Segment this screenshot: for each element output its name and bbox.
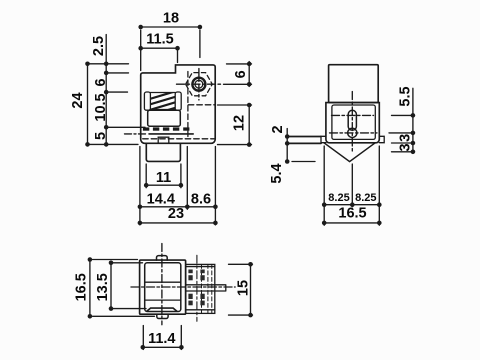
svg-text:3: 3 (398, 143, 414, 151)
bottom tab (157, 314, 168, 318)
hole crosshair horizontal (177, 83, 221, 85)
horizontal centerline circle (330, 132, 378, 134)
center band (186, 285, 226, 291)
svg-text:2.5: 2.5 (91, 36, 107, 56)
left chain line (105, 35, 107, 145)
dim 24 line (87, 64, 89, 145)
bottom view outer rect (140, 260, 186, 314)
bottom trapezoid (147, 308, 177, 311)
vertical centerline (161, 244, 163, 325)
svg-text:24: 24 (70, 92, 86, 108)
right block top/bottom double lines (186, 267, 215, 310)
dim 14.4 / 8.6 (140, 147, 216, 225)
right block outer (186, 264, 215, 313)
svg-text:6: 6 (233, 70, 249, 78)
dim 11 bottom (146, 164, 181, 188)
hidden line vertical (187, 72, 189, 139)
slot (348, 110, 356, 130)
solid line under terminals (149, 133, 193, 135)
svg-text:5: 5 (93, 132, 109, 140)
hidden line bottom (143, 138, 214, 140)
coil right flange (175, 92, 181, 110)
svg-text:23: 23 (168, 206, 184, 222)
svg-text:15: 15 (235, 280, 251, 296)
dim 23 (140, 222, 216, 224)
top tab (157, 256, 168, 261)
svg-text:12: 12 (232, 115, 248, 131)
chain extension lines (90, 64, 146, 145)
centerline left stub (125, 133, 149, 135)
front view body outline (141, 65, 216, 143)
svg-text:11.4: 11.4 (148, 331, 175, 347)
coil left flange (144, 92, 150, 110)
svg-text:16.5: 16.5 (338, 206, 366, 222)
svg-text:11: 11 (156, 170, 171, 186)
svg-text:2: 2 (270, 125, 286, 133)
bottom protrusion (146, 144, 180, 162)
dim right column 5.5 / 3 / 3 (389, 88, 415, 152)
svg-text:8.6: 8.6 (191, 192, 211, 208)
svg-text:3: 3 (398, 134, 414, 142)
dim 13.5 (111, 263, 146, 309)
dim 2 / 5.4 left (287, 129, 315, 162)
inner line 2 (145, 299, 181, 301)
side view upper body (329, 65, 379, 103)
dim 18 (141, 27, 200, 71)
svg-text:10.5: 10.5 (93, 93, 109, 121)
right foot (379, 136, 384, 142)
dim 12 right (218, 105, 252, 145)
vertical centerline (351, 92, 353, 152)
screw hole inner (195, 80, 203, 88)
bottom notch tab (158, 137, 169, 143)
slot circle (348, 128, 357, 137)
dim 8.25 8.25 / 16.5 bottom (324, 146, 379, 225)
dim 6 right (224, 62, 252, 87)
inner line 1 (145, 281, 181, 283)
svg-text:5.4: 5.4 (269, 163, 285, 183)
svg-text:13.5: 13.5 (95, 273, 111, 301)
svg-text:16.5: 16.5 (74, 273, 90, 301)
right block dashed verticals (202, 264, 212, 313)
svg-text:18: 18 (163, 11, 179, 27)
dim 11.4 (143, 326, 182, 350)
horizontal centerline (131, 286, 235, 288)
screw hole outer (192, 78, 205, 91)
hidden hexagon nut (186, 73, 213, 96)
terminal pins (288, 137, 321, 144)
hole crosshair vertical (198, 69, 200, 101)
horizontal centerline upper (332, 114, 374, 116)
svg-text:6: 6 (93, 78, 109, 86)
V cone (324, 143, 375, 162)
bottom view inner rect (145, 263, 181, 312)
dim 15 right (229, 264, 253, 315)
hidden line right (188, 104, 215, 106)
svg-text:8.25: 8.25 (355, 192, 376, 204)
side view lower body (326, 103, 379, 143)
block vertical centerline (196, 255, 198, 321)
svg-text:11.5: 11.5 (146, 32, 173, 48)
right block dark marks (188, 270, 204, 306)
dim 11.5 (141, 48, 178, 62)
svg-text:5.5: 5.5 (398, 86, 414, 106)
left foot (321, 136, 326, 142)
terminal squares (143, 127, 190, 130)
side view inner rect (332, 105, 375, 139)
dim 16.5 left (90, 260, 155, 317)
svg-text:8.25: 8.25 (328, 192, 349, 204)
bobbin base (148, 110, 181, 126)
